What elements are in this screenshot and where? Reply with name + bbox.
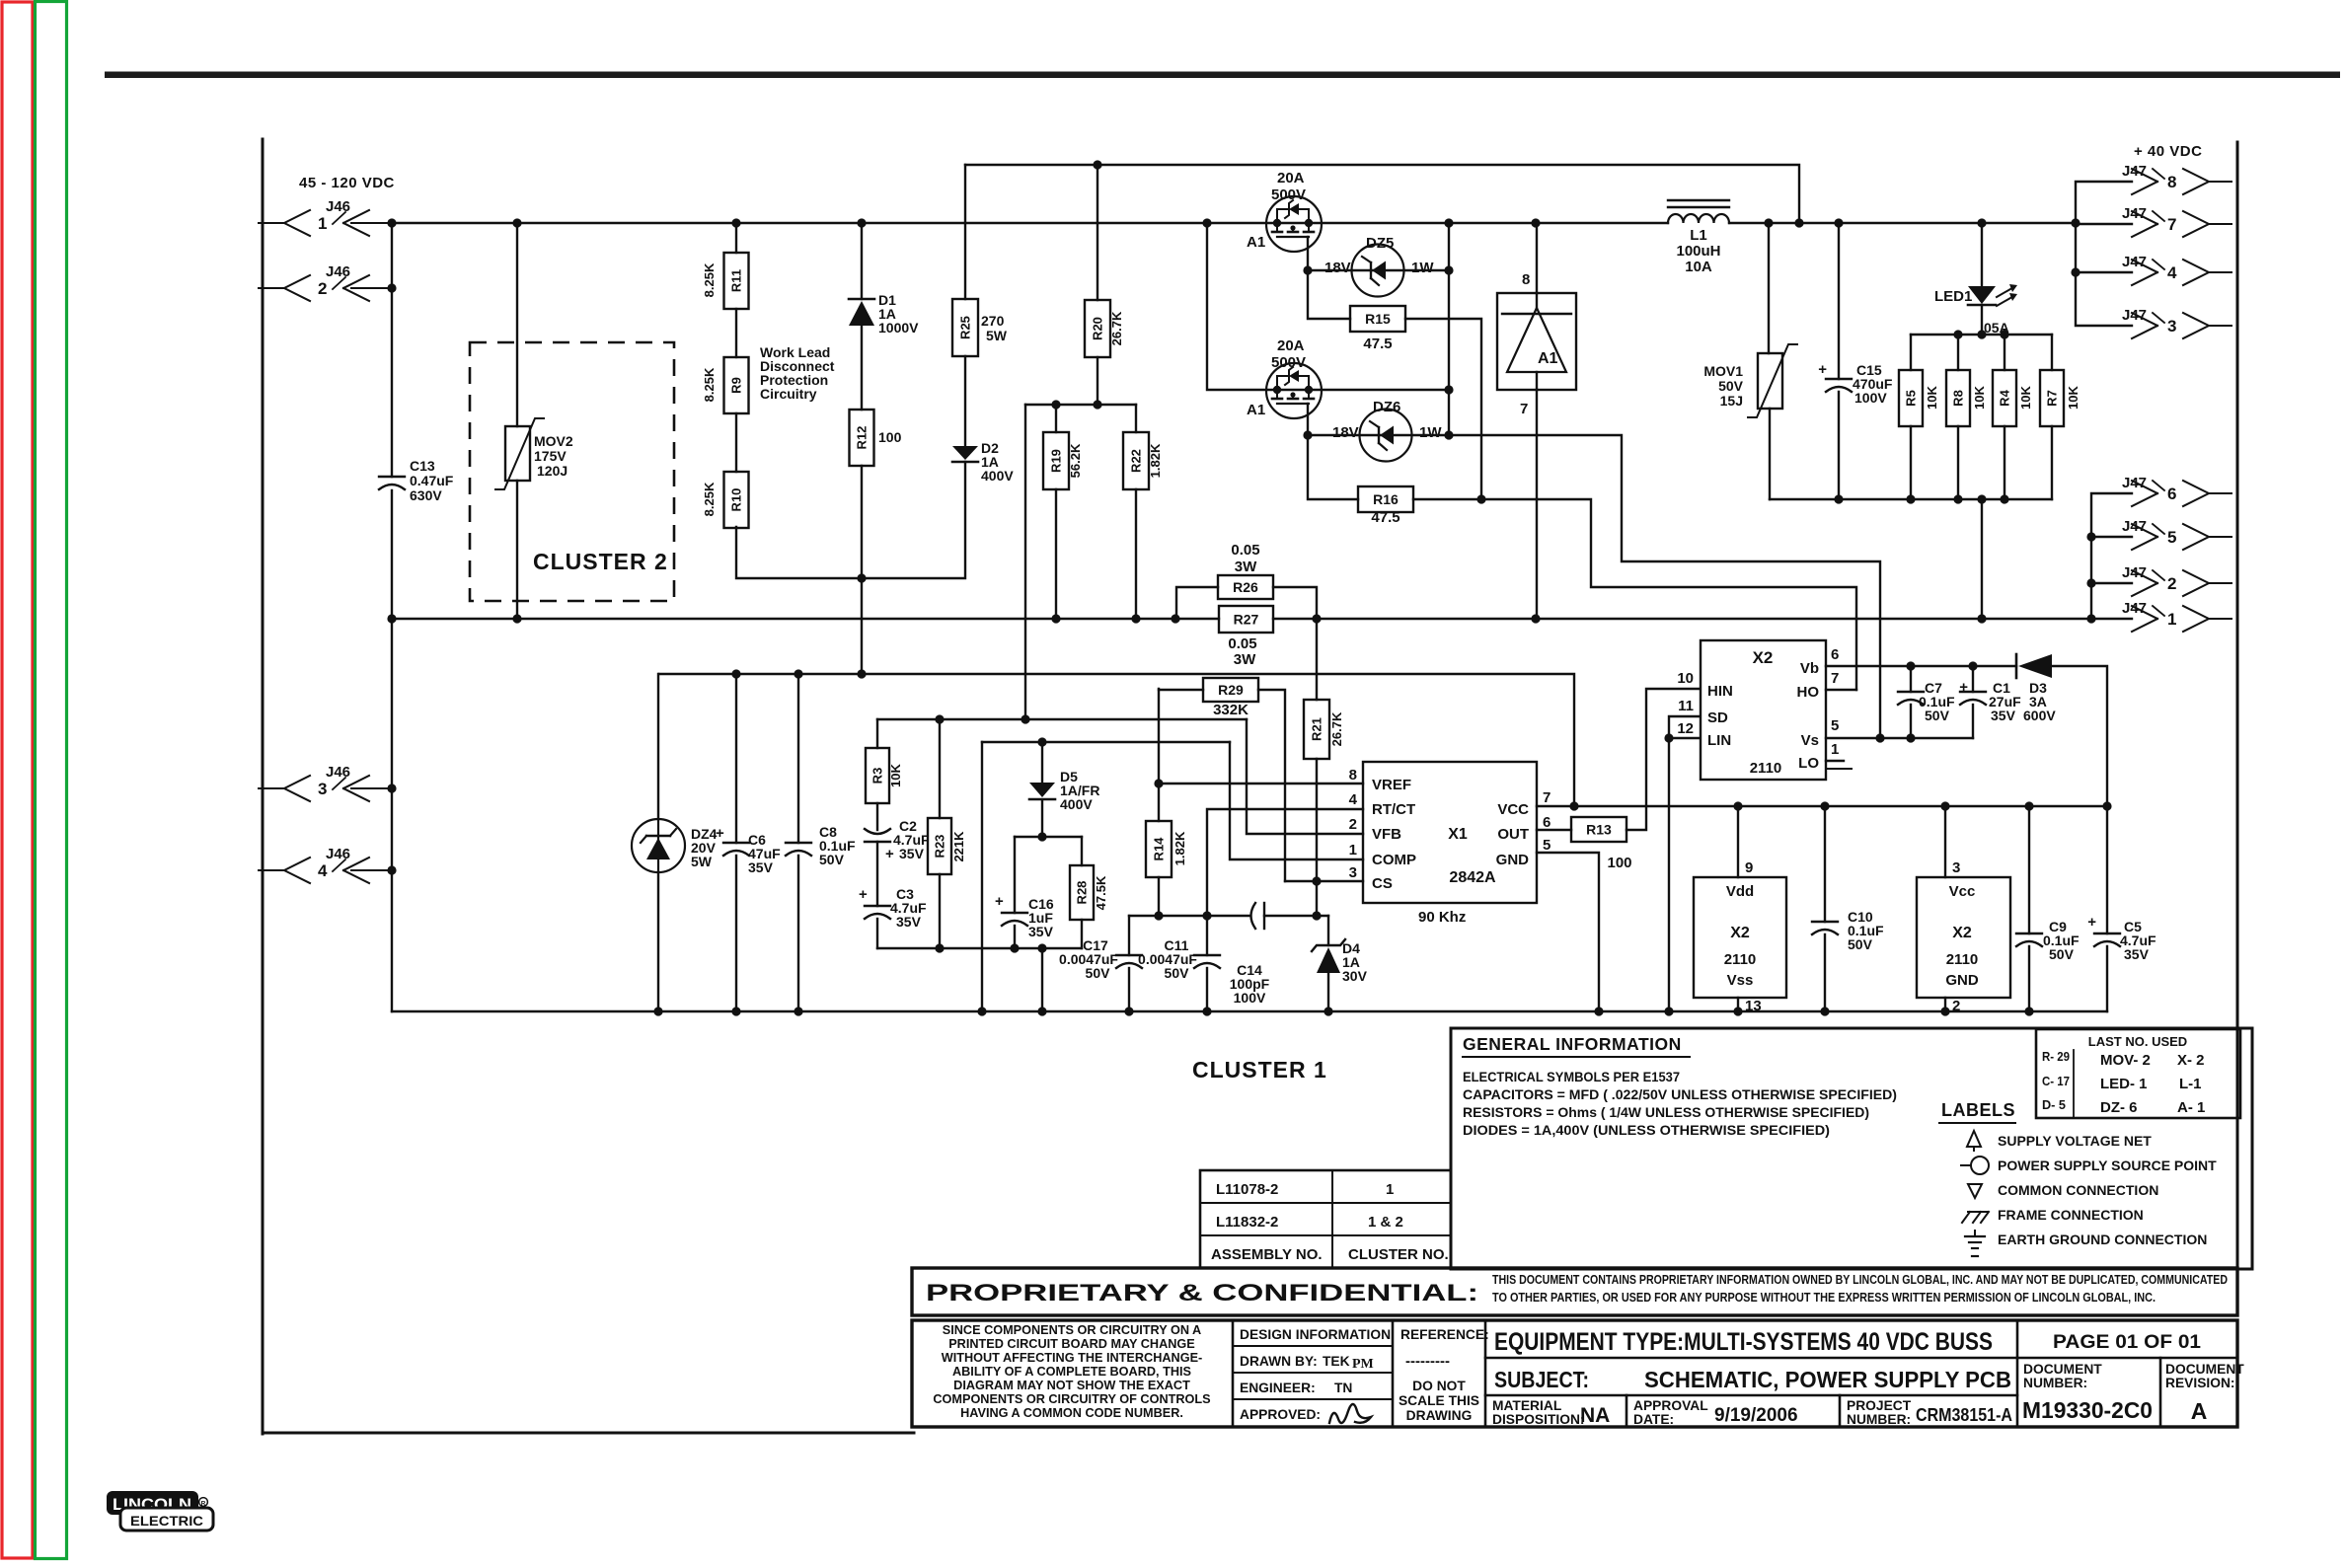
- svg-text:R16: R16: [1373, 491, 1399, 507]
- label 05A: [1984, 320, 2009, 336]
- op-amp A1 driver block: [1497, 223, 1576, 619]
- IC X1 2842A: [1349, 762, 1551, 926]
- svg-text:3: 3: [1952, 859, 1960, 876]
- svg-text:400V: 400V: [1060, 796, 1093, 812]
- svg-text:POWER SUPPLY SOURCE POINT: POWER SUPPLY SOURCE POINT: [1998, 1157, 2217, 1173]
- schematic frame right border: [2236, 142, 2239, 1270]
- label 45-120 VDC: [299, 175, 395, 191]
- svg-text:SCALE THIS: SCALE THIS: [1399, 1393, 1479, 1408]
- svg-text:2110: 2110: [1946, 951, 1979, 968]
- svg-text:0.05: 0.05: [1231, 542, 1259, 559]
- svg-text:0.05: 0.05: [1228, 635, 1256, 652]
- svg-text:R8: R8: [1951, 390, 1966, 407]
- wire C16/R28 top: [1015, 832, 1082, 841]
- svg-text:10K: 10K: [2018, 385, 2033, 409]
- svg-text:1: 1: [318, 214, 327, 233]
- svg-text:7: 7: [1520, 401, 1528, 417]
- svg-text:8: 8: [2167, 173, 2176, 191]
- resistor R8: [1946, 370, 1987, 499]
- svg-text:10A: 10A: [1685, 259, 1712, 275]
- label LABELS: [1939, 1100, 2015, 1123]
- diode D5: [1029, 742, 1099, 837]
- svg-text:7: 7: [2167, 215, 2176, 234]
- label work lead disconnect: [760, 344, 835, 402]
- svg-text:1W: 1W: [1419, 424, 1442, 441]
- wire J47 top bracket: [2071, 182, 2132, 326]
- label CLUSTER 2: [533, 549, 668, 574]
- title block material/approval/project: [1492, 1395, 2012, 1427]
- svg-text:OUT: OUT: [1497, 826, 1529, 843]
- title block reference cell: [1399, 1320, 1489, 1427]
- svg-text:GND: GND: [1945, 972, 1979, 989]
- wire J47 bottom bracket: [2086, 493, 2132, 619]
- svg-text:PROPRIETARY & CONFIDENTIAL:: PROPRIETARY & CONFIDENTIAL:: [926, 1280, 1478, 1307]
- svg-text:MOV1: MOV1: [1703, 363, 1743, 379]
- capacitor C6: [716, 674, 781, 1011]
- svg-text:R27: R27: [1234, 612, 1259, 628]
- svg-text:45 - 120 VDC: 45 - 120 VDC: [299, 175, 395, 191]
- capacitor C7: [1898, 666, 1955, 738]
- svg-text:50V: 50V: [1086, 965, 1111, 981]
- wire LED resistor bracket top (y=339): [1911, 330, 2052, 370]
- wire R9-R10: [735, 413, 737, 472]
- connector J46 pin 2: [259, 263, 392, 301]
- connector J47 pin 1: [2122, 600, 2232, 632]
- svg-text:SUBJECT:: SUBJECT:: [1494, 1367, 1589, 1392]
- svg-text:50V: 50V: [1165, 965, 1190, 981]
- svg-text:500V: 500V: [1271, 354, 1306, 371]
- svg-text:MOV- 2: MOV- 2: [2100, 1052, 2151, 1069]
- svg-text:R11: R11: [729, 269, 744, 292]
- svg-text:8: 8: [1522, 271, 1530, 288]
- svg-text:ASSEMBLY NO.: ASSEMBLY NO.: [1211, 1246, 1323, 1263]
- svg-text:J46: J46: [326, 263, 350, 280]
- svg-text:100V: 100V: [1234, 990, 1266, 1006]
- svg-text:+: +: [885, 846, 894, 862]
- svg-text:2110: 2110: [1724, 951, 1757, 968]
- svg-text:20A: 20A: [1277, 337, 1305, 354]
- zener DZ6: [1308, 399, 1454, 462]
- node R12 bottom junction: [857, 573, 866, 582]
- svg-text:APPROVAL: APPROVAL: [1633, 1398, 1708, 1413]
- svg-text:+: +: [859, 886, 868, 903]
- svg-text:4: 4: [1349, 791, 1358, 808]
- legend power supply source point: [1961, 1157, 2217, 1174]
- wire ground return rail (y=1025): [392, 1010, 2107, 1012]
- svg-text:A1: A1: [1538, 350, 1558, 367]
- svg-text:50V: 50V: [1718, 378, 1744, 394]
- title block subject: [1485, 1367, 2017, 1395]
- svg-text:X1: X1: [1448, 826, 1468, 843]
- svg-text:DOCUMENT: DOCUMENT: [2023, 1362, 2102, 1377]
- wire gate drive staircase to Vs: [1449, 435, 1880, 738]
- resistor R5: [1899, 370, 1939, 499]
- svg-text:PAGE 01 OF 01: PAGE 01 OF 01: [2053, 1332, 2201, 1353]
- wire VCC rail (y=817): [1537, 801, 2112, 810]
- wire R16 staircase to HO: [1481, 499, 1856, 690]
- wire COMP net: [1230, 742, 1363, 859]
- svg-text:50V: 50V: [2049, 946, 2075, 962]
- svg-text:270: 270: [981, 313, 1005, 329]
- legend common connection: [1968, 1182, 2158, 1198]
- svg-text:35V: 35V: [1028, 924, 1054, 939]
- wire Vb net (y=675): [1826, 661, 2016, 670]
- connector J47 pin 4: [2122, 254, 2232, 285]
- legend earth ground connection: [1965, 1231, 2207, 1256]
- svg-text:R26: R26: [1233, 579, 1258, 595]
- wire HO stub: [1826, 689, 1856, 691]
- svg-text:L1: L1: [1690, 227, 1707, 244]
- svg-text:R7: R7: [2045, 390, 2060, 407]
- svg-text:DZ6: DZ6: [1373, 399, 1400, 415]
- last number used table: [2036, 1029, 2240, 1118]
- svg-text:PM: PM: [1352, 1357, 1374, 1372]
- svg-text:THIS DOCUMENT CONTAINS PROPRIE: THIS DOCUMENT CONTAINS PROPRIETARY INFOR…: [1492, 1272, 2228, 1287]
- svg-text:COMP: COMP: [1372, 852, 1416, 868]
- svg-text:TN: TN: [1334, 1381, 1352, 1395]
- svg-text:2: 2: [1952, 998, 1960, 1014]
- connector J47 pin 5: [2122, 518, 2232, 550]
- svg-text:+: +: [995, 893, 1004, 910]
- node J46-4 junction: [387, 865, 396, 874]
- svg-text:50V: 50V: [819, 852, 845, 867]
- wire divider node (y=410): [1025, 400, 1136, 409]
- svg-text:J47: J47: [2122, 600, 2147, 617]
- wire lower MOSFET branch: [1207, 223, 1454, 395]
- svg-text:26.7K: 26.7K: [1329, 711, 1344, 746]
- svg-text:3W: 3W: [1234, 651, 1256, 668]
- svg-text:PRINTED CIRCUIT BOARD MAY CHAN: PRINTED CIRCUIT BOARD MAY CHANGE: [948, 1337, 1195, 1351]
- svg-text:1.82K: 1.82K: [1148, 443, 1163, 478]
- svg-text:M19330-2C0: M19330-2C0: [2022, 1397, 2153, 1423]
- label +40 VDC: [2134, 143, 2202, 160]
- diode D2: [952, 356, 1014, 484]
- svg-text:Vb: Vb: [1800, 660, 1819, 677]
- LED LED1: [1934, 223, 2017, 335]
- resistor R25: [952, 165, 1008, 356]
- svg-text:R22: R22: [1129, 449, 1144, 473]
- svg-text:SUPPLY VOLTAGE NET: SUPPLY VOLTAGE NET: [1998, 1133, 2152, 1149]
- svg-text:+: +: [2087, 914, 2096, 931]
- svg-text:100: 100: [878, 429, 902, 445]
- svg-text:J47: J47: [2122, 475, 2147, 491]
- svg-text:10K: 10K: [2066, 385, 2080, 409]
- lincoln electric logo: [107, 1491, 213, 1531]
- wire MOSFET source bus (x=1468): [1448, 223, 1450, 435]
- wire output sense rail (y=627): [392, 618, 2132, 620]
- resistor R11: [702, 223, 749, 309]
- svg-text:J47: J47: [2122, 163, 2147, 180]
- legend supply voltage net: [1967, 1131, 2152, 1151]
- wire VFB feeder (y=729): [877, 714, 1247, 723]
- svg-text:A- 1: A- 1: [2177, 1099, 2205, 1116]
- svg-text:J47: J47: [2122, 307, 2147, 324]
- node sense rail junctions: [387, 614, 2095, 623]
- svg-text:5: 5: [2167, 528, 2176, 547]
- svg-text:ENGINEER:: ENGINEER:: [1240, 1381, 1316, 1395]
- svg-text:ELECTRICAL SYMBOLS PER E1537: ELECTRICAL SYMBOLS PER E1537: [1463, 1069, 1680, 1084]
- svg-text:11: 11: [1678, 698, 1694, 714]
- transistor A1 upper MOSFET: [1247, 170, 1322, 252]
- svg-text:2: 2: [2167, 574, 2176, 593]
- schematic frame bottom border: [263, 1432, 914, 1435]
- svg-text:3: 3: [318, 780, 327, 798]
- connector J46 pin 4: [259, 846, 392, 883]
- svg-text:10: 10: [1677, 670, 1694, 687]
- resistor R23: [928, 719, 966, 948]
- svg-text:630V: 630V: [410, 487, 442, 503]
- svg-text:120J: 120J: [537, 463, 567, 479]
- svg-text:5W: 5W: [986, 328, 1008, 343]
- svg-text:50V: 50V: [1925, 708, 1950, 723]
- svg-text:+ 40 VDC: + 40 VDC: [2134, 143, 2202, 160]
- wire work-lead bottom link (y=586): [736, 462, 965, 578]
- wire VREF net: [1154, 779, 1363, 787]
- svg-text:47.5: 47.5: [1371, 509, 1399, 526]
- svg-text:NA: NA: [1580, 1404, 1610, 1427]
- svg-text:CLUSTER 1: CLUSTER 1: [1192, 1057, 1327, 1083]
- svg-text:J47: J47: [2122, 205, 2147, 222]
- svg-text:R20: R20: [1091, 317, 1105, 340]
- svg-text:6: 6: [1543, 814, 1551, 831]
- svg-text:R13: R13: [1586, 822, 1612, 838]
- svg-text:DESIGN INFORMATION: DESIGN INFORMATION: [1240, 1327, 1391, 1342]
- zener DZ5: [1308, 235, 1454, 297]
- svg-text:X2: X2: [1753, 648, 1774, 667]
- svg-text:600V: 600V: [2023, 708, 2056, 723]
- svg-text:DATE:: DATE:: [1633, 1412, 1674, 1427]
- svg-text:400V: 400V: [981, 468, 1014, 484]
- connector J47 pin 8: [2122, 163, 2232, 194]
- resistor R20: [1085, 165, 1124, 405]
- node ground rail junctions: [653, 1007, 2033, 1015]
- capacitor C9: [2016, 806, 2080, 1011]
- title block design information: [1233, 1320, 1393, 1427]
- svg-text:HIN: HIN: [1707, 683, 1733, 700]
- capacitor C1: [1959, 666, 2021, 738]
- title block document revision: [2165, 1362, 2244, 1424]
- wire R13 to HIN: [1626, 689, 1700, 830]
- capacitor C10: [1812, 806, 1884, 1011]
- svg-text:VFB: VFB: [1372, 826, 1401, 843]
- capacitor C15: [1818, 223, 1893, 499]
- svg-text:47.5K: 47.5K: [1094, 875, 1108, 910]
- svg-text:LIN: LIN: [1707, 732, 1731, 749]
- schematic frame left border: [262, 139, 265, 1434]
- resistor R15: [1308, 270, 1481, 499]
- svg-text:SCHEMATIC, POWER SUPPLY PCB: SCHEMATIC, POWER SUPPLY PCB: [1644, 1367, 2011, 1392]
- svg-text:L11078-2: L11078-2: [1216, 1181, 1278, 1198]
- wire J46 input vertical (x=397): [391, 223, 393, 1011]
- svg-text:REFERENCE:: REFERENCE:: [1400, 1327, 1489, 1342]
- zener DZ4: [632, 674, 718, 1011]
- svg-text:6: 6: [2167, 485, 2176, 503]
- svg-text:LABELS: LABELS: [1941, 1100, 2015, 1120]
- label CLUSTER 1: [1192, 1057, 1327, 1083]
- svg-text:VCC: VCC: [1497, 801, 1529, 818]
- resistor R19: [1043, 405, 1083, 619]
- svg-text:0.47uF: 0.47uF: [410, 473, 454, 488]
- svg-text:18V: 18V: [1324, 260, 1351, 276]
- svg-text:5W: 5W: [691, 854, 713, 869]
- svg-text:HAVING A COMMON CODE NUMBER.: HAVING A COMMON CODE NUMBER.: [960, 1406, 1183, 1420]
- svg-text:35V: 35V: [896, 914, 922, 930]
- svg-text:J47: J47: [2122, 564, 2147, 581]
- diode D3: [2016, 654, 2107, 806]
- wire main input bus (J46-1 to J47 bracket, y=226): [392, 222, 2076, 224]
- svg-text:SD: SD: [1707, 709, 1728, 726]
- node J46-3 junction: [387, 784, 396, 792]
- svg-text:DOCUMENT: DOCUMENT: [2165, 1362, 2244, 1377]
- wire X1 GND to ground: [1537, 853, 1599, 1011]
- svg-text:R28: R28: [1075, 881, 1090, 905]
- svg-text:56.2K: 56.2K: [1068, 443, 1083, 478]
- svg-text:100: 100: [1607, 855, 1631, 871]
- svg-text:COMPONENTS OR CIRCUITRY OF CON: COMPONENTS OR CIRCUITRY OF CONTROLS: [933, 1392, 1210, 1406]
- svg-text:X2: X2: [1730, 925, 1750, 941]
- svg-text:20A: 20A: [1277, 170, 1305, 187]
- svg-text:R3: R3: [870, 768, 885, 784]
- capacitor C5: [2087, 806, 2156, 1011]
- svg-text:GENERAL INFORMATION: GENERAL INFORMATION: [1463, 1034, 1682, 1054]
- svg-text:1000V: 1000V: [878, 320, 919, 336]
- svg-text:DISPOSITION:: DISPOSITION:: [1492, 1412, 1585, 1427]
- svg-text:175V: 175V: [534, 448, 567, 464]
- assembly number table: [1200, 1170, 1451, 1268]
- svg-text:---------: ---------: [1405, 1353, 1450, 1370]
- svg-text:CRM38151-A: CRM38151-A: [1916, 1405, 2012, 1425]
- wire ramp node (y=928): [1129, 915, 1328, 917]
- wire CS net: [1285, 876, 1363, 885]
- svg-text:DIAGRAM MAY NOT SHOW THE EXACT: DIAGRAM MAY NOT SHOW THE EXACT: [953, 1379, 1190, 1392]
- resistor R12: [850, 410, 902, 578]
- svg-text:10K: 10K: [1925, 385, 1939, 409]
- IC X2 2110 driver: [1677, 640, 1839, 780]
- svg-text:1 & 2: 1 & 2: [1368, 1214, 1403, 1231]
- svg-text:Vdd: Vdd: [1726, 883, 1754, 900]
- wire Vs net (y=748): [1826, 733, 1973, 742]
- connector J47 pin 6: [2122, 475, 2232, 506]
- svg-text:R23: R23: [933, 835, 947, 859]
- svg-text:MOV2: MOV2: [534, 433, 573, 449]
- svg-text:CAPACITORS = MFD ( .022/50V: CAPACITORS = MFD ( .022/50V UNLESS OTHER…: [1463, 1086, 1897, 1102]
- svg-text:3: 3: [2167, 317, 2176, 336]
- svg-text:RESISTORS = Ohms ( 1/4W U: RESISTORS = Ohms ( 1/4W UNLESS OTHERWISE…: [1463, 1104, 1869, 1120]
- wire VFB net: [1247, 719, 1363, 834]
- node J46-2 junction: [387, 283, 396, 292]
- IC X2 logic supply block (Vcc/GND): [1917, 806, 2010, 1014]
- pin LO open stub: [1826, 761, 1852, 769]
- svg-text:REVISION:: REVISION:: [2165, 1376, 2235, 1390]
- svg-text:4: 4: [2167, 263, 2177, 282]
- svg-text:8.25K: 8.25K: [702, 367, 717, 402]
- label GENERAL INFORMATION: [1463, 1034, 1897, 1138]
- svg-text:8.25K: 8.25K: [702, 482, 717, 516]
- svg-text:J47: J47: [2122, 254, 2147, 270]
- svg-text:10K: 10K: [888, 763, 903, 786]
- svg-text:3: 3: [1349, 864, 1357, 881]
- svg-text:NUMBER:: NUMBER:: [1847, 1412, 1911, 1427]
- title block page cell: [2017, 1320, 2201, 1427]
- svg-text:26.7K: 26.7K: [1109, 311, 1124, 345]
- wire LED resistor bracket bottom (y=506): [1770, 494, 2052, 503]
- svg-text:+: +: [1959, 679, 1968, 696]
- wire Vcc supply rail (y=683): [659, 674, 1574, 806]
- svg-text:100V: 100V: [1854, 390, 1887, 406]
- svg-text:R4: R4: [1998, 389, 2012, 406]
- resistor R13: [1537, 817, 1632, 871]
- wire comp ground stub: [1041, 948, 1043, 1011]
- svg-text:2110: 2110: [1750, 760, 1782, 777]
- svg-text:GND: GND: [1496, 852, 1530, 868]
- svg-text:1W: 1W: [1411, 260, 1434, 276]
- capacitor C17: [1059, 916, 1142, 1011]
- wire R12 to Vcc rail: [861, 578, 863, 674]
- connector J46 pin 1: [259, 198, 392, 236]
- svg-text:LED- 1: LED- 1: [2100, 1076, 2148, 1092]
- svg-text:J47: J47: [2122, 518, 2147, 535]
- svg-text:35V: 35V: [899, 846, 925, 861]
- svg-text:EARTH GROUND CONNECTION: EARTH GROUND CONNECTION: [1998, 1232, 2207, 1247]
- top heavy rule: [105, 72, 2340, 79]
- svg-text:12: 12: [1677, 720, 1694, 737]
- varistor MOV2: [495, 223, 573, 619]
- diode D1: [849, 223, 919, 410]
- general information box: [1451, 1028, 2252, 1269]
- svg-text:90 Khz: 90 Khz: [1418, 909, 1466, 926]
- svg-text:+: +: [1818, 361, 1827, 378]
- resistor R9: [702, 357, 749, 413]
- resistor R16: [1308, 435, 1486, 526]
- svg-text:DIODES = 1A,400V (UNLESS: DIODES = 1A,400V (UNLESS OTHERWISE SPECI…: [1463, 1122, 1830, 1138]
- svg-text:C- 17: C- 17: [2042, 1075, 2070, 1088]
- resistor R29: [1159, 678, 1285, 881]
- svg-text:6: 6: [1831, 646, 1839, 663]
- capacitor C2: [865, 818, 930, 906]
- wire R11-R9: [735, 309, 737, 357]
- svg-text:1: 1: [1831, 741, 1839, 758]
- svg-text:DRAWN BY:: DRAWN BY:: [1240, 1354, 1318, 1369]
- svg-text:TEK: TEK: [1323, 1354, 1350, 1369]
- svg-text:COMMON CONNECTION: COMMON CONNECTION: [1998, 1182, 2158, 1198]
- scan registration green bar: [36, 2, 67, 1559]
- svg-text:5: 5: [1543, 837, 1551, 854]
- svg-text:9/19/2006: 9/19/2006: [1714, 1405, 1798, 1426]
- IC X2 high-side supply block (Vdd/Vss): [1694, 806, 1786, 1014]
- svg-text:DZ- 6: DZ- 6: [2100, 1099, 2138, 1116]
- title block equipment type: [1485, 1328, 2017, 1358]
- svg-text:PROJECT: PROJECT: [1847, 1398, 1912, 1413]
- svg-text:3W: 3W: [1235, 559, 1257, 575]
- svg-text:35V: 35V: [1991, 708, 2016, 723]
- capacitor C3: [859, 886, 927, 948]
- resistor R21: [1304, 619, 1344, 921]
- svg-text:C13: C13: [410, 458, 435, 474]
- resistor R3: [866, 719, 903, 830]
- svg-text:Vcc: Vcc: [1949, 883, 1976, 900]
- svg-text:R5: R5: [1904, 390, 1919, 407]
- wire COMP feeder ground leg: [981, 742, 983, 1011]
- resistor R27: [1219, 606, 1273, 668]
- svg-text:J46: J46: [326, 198, 350, 215]
- legend frame connection: [1962, 1207, 2144, 1223]
- resistor R28: [1070, 837, 1108, 948]
- svg-text:ELECTRIC: ELECTRIC: [130, 1513, 203, 1529]
- resistor R14: [1146, 784, 1187, 921]
- proprietary & confidential box: [912, 1268, 2237, 1315]
- svg-text:R29: R29: [1218, 682, 1244, 698]
- svg-text:5: 5: [1831, 717, 1839, 734]
